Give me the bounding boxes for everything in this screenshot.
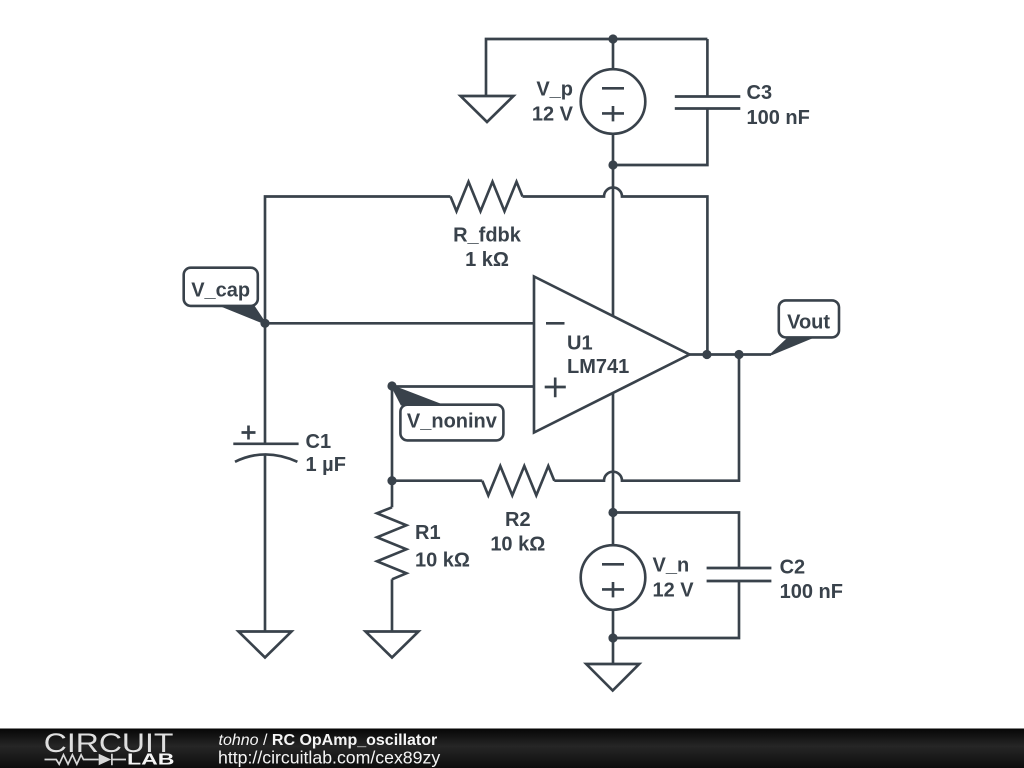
wire C1 top branch [264,323,267,444]
wire R2 right with hop and up to output [554,355,739,481]
svg-text:http://circuitlab.com/cex89zy: http://circuitlab.com/cex89zy [218,748,440,768]
ground G3 under R1 [366,632,419,658]
ground G1 top-left [461,96,514,122]
wire R1 top lead [391,481,394,508]
svg-text:10 kΩ: 10 kΩ [490,534,545,556]
wire V_p bottom stub [612,134,615,165]
voltage source V_n [581,545,646,610]
resistor R_fdbk [451,182,523,211]
svg-text:LM741: LM741 [567,356,629,378]
node label V_noninv [387,381,503,440]
svg-text:1 kΩ: 1 kΩ [465,249,509,271]
wire inverting input [265,322,534,325]
wire supply vertical from op-amp V- down [612,393,615,513]
capacitor C1 polarized [233,426,298,462]
svg-text:V_n: V_n [653,555,690,577]
wire C3 branch bottom to node [613,109,707,166]
node top rail junction [608,34,617,43]
wire R2 left lead [392,479,482,482]
svg-text:Vout: Vout [787,311,830,333]
svg-text:12 V: 12 V [532,104,574,126]
node supply mid junction [608,160,617,169]
resistor R2 [482,466,554,495]
node R1 R2 junction [387,476,396,485]
capacitor C3 [675,97,741,109]
ground G4 bottom [586,664,639,691]
wire V_noninv vertical [391,386,394,481]
node label Vout [771,300,839,354]
label C3 value [747,82,810,129]
resistor R1 [377,507,406,579]
wire V_n bottom stub [612,610,615,638]
svg-text:V_cap: V_cap [191,280,250,302]
wire C2 bottom branch [613,581,739,638]
logo squiggle resistor diode [45,755,99,764]
node label V_cap [184,268,270,328]
svg-text:U1: U1 [567,333,593,355]
wire R1 bottom lead [391,579,394,630]
svg-text:LAB: LAB [127,752,175,768]
wire top rail from ground to C3 branch [486,39,707,96]
footer bar [0,729,1024,768]
wire noninverting input [392,385,534,388]
node output junction 2 [734,350,743,359]
wire C3 branch top [706,39,709,97]
node V_n bottom junction [608,633,617,642]
voltage source V_p [581,69,646,134]
node output junction 1 [702,350,711,359]
wire C1 bottom branch [264,456,267,631]
wire feedback right with hop over supply [523,188,708,355]
op-amp U1 [534,277,690,433]
wire supply vertical to op-amp V+ [612,165,615,316]
svg-text:tohno / RC OpAmp_oscillator: tohno / RC OpAmp_oscillator [219,732,438,749]
ground G2 under C1 [239,632,292,658]
svg-text:R1: R1 [415,522,441,544]
wire V_p top stub [612,39,615,69]
svg-text:C2: C2 [780,557,806,579]
svg-text:V_p: V_p [536,79,573,101]
svg-text:1 µF: 1 µF [306,454,346,476]
capacitor C2 [707,568,772,581]
label V_n value [653,555,695,602]
svg-text:10 kΩ: 10 kΩ [415,550,470,572]
svg-text:R2: R2 [505,509,531,531]
wire feedback left leg [265,197,451,324]
svg-text:100 nF: 100 nF [780,581,843,603]
node V_n top junction [608,508,617,517]
svg-text:100 nF: 100 nF [747,107,810,129]
label R2 value [490,509,545,556]
label C2 value [780,557,843,604]
svg-text:C3: C3 [747,82,773,104]
label R_fdbk value [453,225,522,272]
wire output [690,353,772,356]
wire V_n top stub [612,513,615,546]
label C1 value [306,431,346,476]
svg-text:R_fdbk: R_fdbk [453,225,522,247]
svg-text:12 V: 12 V [653,580,695,602]
wire ground stub bottom [612,638,615,664]
wire V_n top rail to C2 [613,513,739,569]
svg-text:C1: C1 [306,431,332,453]
label R1 value [415,522,470,572]
svg-text:V_noninv: V_noninv [407,411,498,433]
label V_p value [532,79,574,126]
